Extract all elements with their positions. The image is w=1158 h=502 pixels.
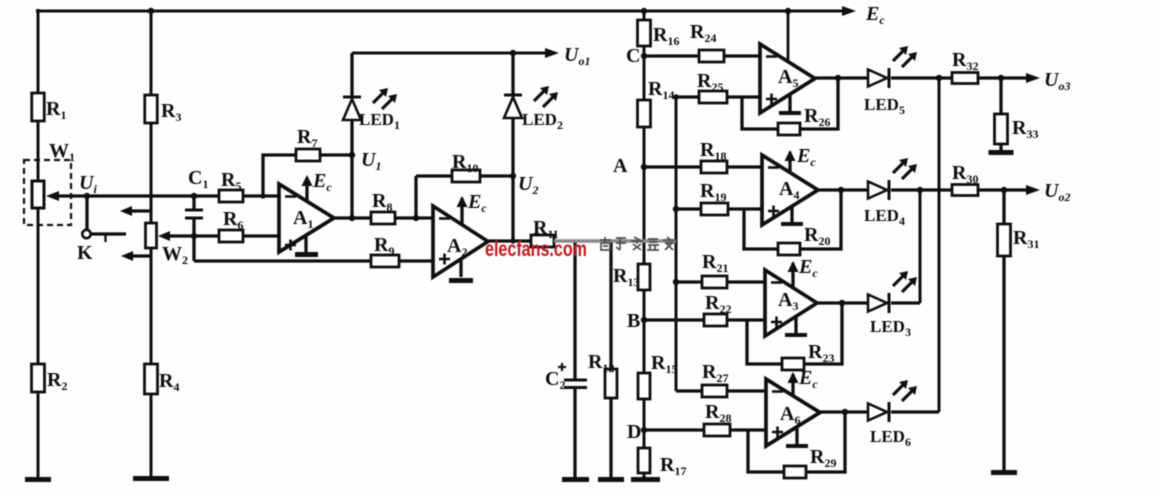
- svg-text:LED6: LED6: [870, 427, 911, 449]
- svg-text:K: K: [77, 242, 93, 264]
- svg-text:C: C: [626, 45, 640, 67]
- svg-text:A: A: [613, 155, 628, 177]
- svg-text:LED5: LED5: [864, 95, 905, 117]
- svg-text:LED4: LED4: [864, 206, 905, 228]
- svg-text:LED3: LED3: [870, 317, 911, 339]
- svg-text:elecfans.com: elecfans.com: [485, 238, 587, 261]
- svg-text:LED2: LED2: [522, 110, 563, 132]
- svg-text:D: D: [627, 421, 641, 443]
- svg-text:B: B: [627, 310, 640, 332]
- svg-text:LED1: LED1: [359, 110, 400, 132]
